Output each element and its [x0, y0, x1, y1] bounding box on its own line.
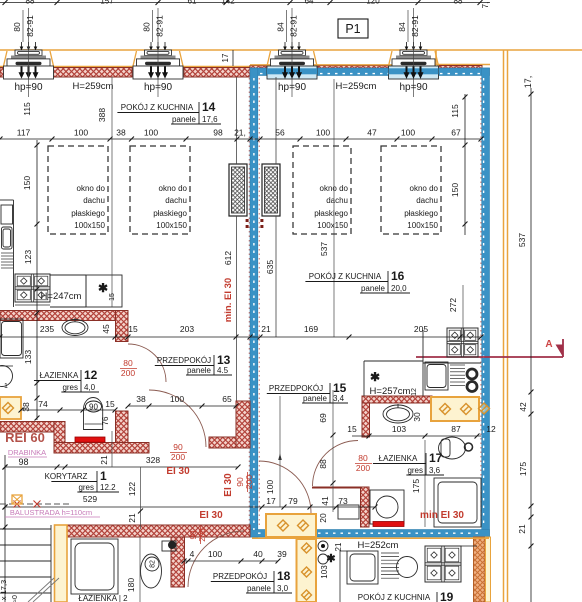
right vertical dimension line x=465 — [464, 94, 466, 235]
svg-text:80: 80 — [142, 22, 152, 32]
wall bathroom12 right lower — [116, 411, 129, 453]
wall korytarz step upper — [0, 422, 63, 433]
svg-text:4.5: 4.5 — [217, 366, 229, 375]
wall apartment19 right — [474, 537, 486, 602]
svg-text:79: 79 — [288, 496, 298, 506]
svg-text:612: 612 — [223, 251, 233, 265]
wall przedpokoj18 left vertical — [171, 537, 185, 587]
white dash texture on blue bands — [253, 78, 255, 530]
section line A-A — [416, 356, 563, 358]
door arc bathroom17 — [313, 441, 359, 487]
svg-text:88: 88 — [26, 0, 35, 6]
svg-text:3,4: 3,4 — [333, 394, 345, 403]
svg-text:169: 169 — [304, 324, 318, 334]
wall bottom band korytarz/przedpokoj18 — [67, 525, 250, 537]
svg-text:56: 56 — [275, 128, 285, 138]
svg-text:płaskiego: płaskiego — [404, 209, 438, 218]
svg-text:61: 61 — [188, 0, 197, 6]
door arc przedpokoj18 — [188, 531, 244, 587]
svg-text:82: 82 — [150, 560, 157, 568]
svg-text:x 17,3: x 17,3 — [0, 580, 8, 600]
svg-text:P1: P1 — [345, 22, 360, 36]
washing machine bathroom17 — [370, 490, 404, 524]
stove apt19 — [425, 546, 461, 582]
radiator bathroom17 — [373, 522, 404, 527]
svg-text:panele: panele — [303, 394, 328, 403]
svg-text:dachu: dachu — [165, 196, 187, 205]
svg-text:82-91: 82-91 — [25, 15, 35, 37]
dim line y=507 korytarz 529 — [5, 506, 375, 508]
svg-text:okno do: okno do — [159, 184, 188, 193]
dim line x=140 korytarz 122/21 — [140, 467, 142, 529]
svg-text:21: 21 — [127, 513, 137, 523]
svg-text:100: 100 — [265, 480, 275, 494]
svg-text:gres: gres — [407, 466, 423, 475]
blue highlight band - top — [250, 68, 490, 76]
svg-text:17: 17 — [429, 451, 443, 465]
svg-text:205: 205 — [414, 324, 428, 334]
dim line przedpokoj15 vertical x=280 — [279, 396, 281, 507]
small rect przedpokoj15 — [338, 505, 359, 519]
sink apt19 — [347, 551, 378, 584]
wall bathroom12 top — [0, 311, 128, 321]
svg-text:PRZEDPOKÓJ: PRZEDPOKÓJ — [269, 384, 323, 393]
svg-text:133: 133 — [23, 350, 33, 364]
pot circle apt19 — [397, 557, 418, 578]
toilet apartment below — [162, 541, 176, 551]
svg-text:65: 65 — [222, 394, 232, 404]
roof window symbol at x=158 — [133, 51, 137, 66]
svg-text:537: 537 — [319, 242, 329, 256]
svg-text:84: 84 — [276, 22, 286, 32]
svg-text:47: 47 — [367, 128, 377, 138]
svg-text:ŁAZIENKA | 2: ŁAZIENKA | 2 — [78, 594, 128, 602]
svg-text:235: 235 — [40, 324, 54, 334]
svg-text:123: 123 — [23, 250, 33, 264]
top exterior wall hatched segments — [0, 68, 5, 78]
roof window symbol at x=292 — [267, 51, 271, 66]
kitchen appliance apt14 — [1, 205, 13, 224]
svg-text:21: 21 — [517, 524, 527, 534]
svg-text:103: 103 — [320, 565, 329, 579]
svg-text:min EI 30: min EI 30 — [420, 510, 464, 521]
svg-text:panele: panele — [361, 284, 386, 293]
mid horizontal dimension line y=337 — [0, 336, 481, 338]
svg-text:7,: 7, — [481, 2, 490, 9]
wall korytarz bottom band — [54, 443, 149, 454]
svg-text:15: 15 — [347, 424, 357, 434]
svg-text:180: 180 — [126, 578, 136, 592]
svg-text:1: 1 — [100, 469, 107, 483]
svg-text:39: 39 — [277, 549, 287, 559]
svg-text:82-91: 82-91 — [289, 15, 299, 37]
svg-text:76: 76 — [101, 416, 110, 425]
svg-text:PRZEDPOKÓJ: PRZEDPOKÓJ — [157, 356, 211, 365]
svg-text:100: 100 — [74, 128, 88, 138]
top dimension line (clipped at image edge) — [0, 2, 490, 4]
extension line x=334 with 537 label — [333, 79, 335, 337]
wall pilaster przedpokoj13 — [209, 437, 250, 448]
svg-text:200: 200 — [171, 452, 185, 462]
door pivot dot przedpokoj18 — [168, 541, 176, 549]
roof window dashed outline 3 — [293, 146, 351, 234]
svg-text:hp=90: hp=90 — [144, 82, 173, 93]
svg-text:ŁAZIENKA: ŁAZIENKA — [379, 454, 418, 463]
dim 175 bathroom17 — [424, 440, 426, 527]
blue highlight band - bottom — [250, 530, 490, 538]
svg-text:H=259cm: H=259cm — [73, 81, 114, 92]
svg-text:min. EI 30: min. EI 30 — [223, 278, 234, 322]
svg-text:dachu: dachu — [326, 196, 348, 205]
svg-text:100x150: 100x150 — [317, 221, 348, 230]
wall edge dotted line above blue top band — [260, 66, 480, 68]
counter line apt19 — [339, 551, 341, 602]
washbasin circle bathroom12 — [0, 366, 13, 387]
svg-text:100: 100 — [316, 128, 330, 138]
svg-text:panele: panele — [247, 584, 272, 593]
svg-text:74: 74 — [38, 399, 48, 409]
svg-text:120: 120 — [366, 0, 380, 6]
svg-text:100x150: 100x150 — [74, 221, 105, 230]
wall bathroom17 left upper — [362, 403, 370, 437]
roof window dashed outline 1 — [48, 146, 108, 234]
svg-text:537: 537 — [517, 233, 527, 247]
electrical box bathroom12 — [0, 397, 21, 419]
bathtub bathroom12 — [0, 319, 23, 358]
svg-text:100: 100 — [170, 394, 184, 404]
svg-text:15: 15 — [333, 381, 347, 395]
svg-text:20: 20 — [318, 513, 328, 523]
svg-text:80: 80 — [358, 453, 368, 463]
svg-text:117: 117 — [17, 128, 31, 138]
svg-text:80: 80 — [123, 358, 133, 368]
roof window symbol at x=28.5 — [4, 51, 8, 66]
svg-text:hp=90: hp=90 — [278, 82, 307, 93]
svg-text:88: 88 — [318, 459, 328, 469]
svg-text:16: 16 — [391, 269, 405, 283]
svg-text:20,0: 20,0 — [391, 284, 407, 293]
svg-text:gres: gres — [78, 483, 94, 492]
bathroom12 dimension line y=410 — [21, 409, 115, 411]
svg-text:82-91: 82-91 — [410, 15, 420, 37]
svg-text:17,6: 17,6 — [202, 115, 218, 124]
svg-text:3,0: 3,0 — [277, 584, 289, 593]
svg-text:okno do: okno do — [77, 184, 106, 193]
svg-text:87: 87 — [451, 424, 461, 434]
washbasin bathroom17 — [383, 405, 413, 423]
svg-text:12: 12 — [84, 368, 98, 382]
left edge dimension line — [4, 455, 6, 602]
kitchen counter line apt14 — [13, 200, 15, 307]
door arc korytarz2 — [112, 406, 157, 431]
svg-text:90: 90 — [189, 530, 198, 539]
svg-text:DRABINKA: DRABINKA — [8, 448, 46, 457]
svg-text:dachu: dachu — [83, 196, 105, 205]
svg-text:200: 200 — [244, 475, 254, 489]
svg-text:88: 88 — [454, 0, 463, 6]
svg-text:14: 14 — [202, 100, 216, 114]
main horizontal dimension line y=139 — [0, 138, 481, 140]
svg-text:13: 13 — [217, 353, 231, 367]
svg-text:200: 200 — [121, 368, 135, 378]
shaft partition lines — [236, 77, 238, 164]
svg-text:H=247cm: H=247cm — [41, 291, 82, 302]
svg-text:POKÓJ Z KUCHNIA: POKÓJ Z KUCHNIA — [309, 272, 382, 281]
dim 272 kitchen16 — [462, 285, 464, 337]
svg-text:4,0: 4,0 — [84, 383, 96, 392]
dim 388 vertical label — [111, 77, 113, 307]
svg-text:69: 69 — [318, 413, 328, 423]
svg-text:POKÓJ Z KUCHNIA: POKÓJ Z KUCHNIA — [121, 103, 194, 112]
shower bathroom17 — [434, 478, 481, 527]
svg-text:200: 200 — [356, 463, 370, 473]
svg-text:84: 84 — [397, 22, 407, 32]
svg-text:64: 64 — [305, 0, 314, 6]
svg-text:122: 122 — [127, 482, 137, 496]
svg-text:17,: 17, — [523, 76, 533, 89]
svg-text:98: 98 — [18, 457, 28, 467]
svg-text:328: 328 — [146, 455, 160, 465]
knob rings apt16 — [467, 369, 477, 379]
svg-text:panele: panele — [187, 366, 212, 375]
svg-text:98: 98 — [213, 128, 223, 138]
svg-text:płaskiego: płaskiego — [314, 209, 348, 218]
svg-text:388: 388 — [97, 108, 107, 122]
svg-text:175: 175 — [518, 462, 528, 476]
svg-text:ŁAZIENKA: ŁAZIENKA — [40, 371, 79, 380]
fridge apt14 — [86, 275, 122, 307]
door arc korytarz — [149, 390, 206, 447]
svg-text:hp=90: hp=90 — [14, 82, 43, 93]
svg-text:17: 17 — [221, 53, 230, 62]
balustrade symbol line — [0, 503, 71, 505]
korytarz dimension line y=467 — [5, 466, 238, 468]
svg-text:1: 1 — [4, 383, 8, 390]
dim 180 / 82 bottom — [139, 537, 141, 602]
drainer apt19 — [381, 552, 399, 554]
radiator korytarz — [75, 437, 105, 442]
door threshold bathroom17 — [312, 487, 362, 489]
svg-text:okno do: okno do — [410, 184, 439, 193]
svg-text:30: 30 — [412, 412, 422, 422]
stairs bottom left — [50, 525, 52, 602]
electrical box strip przedpokoj18 — [297, 539, 317, 602]
yellow riser strip at stairs — [55, 525, 68, 602]
svg-text:90: 90 — [173, 442, 183, 452]
svg-text:21: 21 — [334, 542, 343, 551]
toilet bathroom12 — [84, 398, 103, 430]
svg-text:dachu: dachu — [416, 196, 438, 205]
roof edge vertical right — [503, 50, 505, 602]
svg-text:15: 15 — [128, 324, 138, 334]
svg-text:12: 12 — [486, 424, 496, 434]
svg-text:KORYTARZ: KORYTARZ — [45, 472, 88, 481]
blue highlight band - right — [482, 68, 490, 537]
kitchen sink apt14 — [2, 227, 13, 249]
top exterior wall upper edge — [0, 66, 250, 68]
svg-text:gres: gres — [62, 383, 78, 392]
svg-text:REI 60: REI 60 — [5, 430, 45, 445]
bathtub apartment below — [71, 539, 118, 594]
svg-text:19: 19 — [440, 590, 454, 602]
svg-text:H=252cm: H=252cm — [358, 540, 399, 551]
dim extension x=112 korytarz — [111, 431, 113, 467]
svg-text:82-91: 82-91 — [155, 15, 165, 37]
bathroom17 dimension line y=436 — [352, 435, 481, 437]
ventilation shaft right — [262, 164, 280, 216]
stove apt16 — [447, 328, 478, 357]
svg-text:PRZEDPOKÓJ: PRZEDPOKÓJ — [213, 572, 267, 581]
blue highlight band - left — [250, 68, 258, 537]
svg-text:200: 200 — [198, 528, 207, 542]
roof edge line top — [0, 49, 436, 51]
left vertical dimension line x=37 — [36, 140, 38, 420]
svg-text:H=257cm: H=257cm — [370, 386, 411, 397]
svg-text:100x150: 100x150 — [407, 221, 438, 230]
door arc bathroom12 — [128, 344, 166, 382]
svg-text:21: 21 — [99, 455, 109, 465]
orange line under blue bottom band — [252, 537, 489, 539]
svg-text:✱: ✱ — [98, 281, 108, 295]
svg-text:150: 150 — [22, 176, 32, 190]
svg-text:115: 115 — [22, 102, 32, 116]
sink apt16 — [425, 362, 448, 390]
ventilation shaft left — [229, 164, 247, 216]
svg-text:3,6: 3,6 — [429, 466, 441, 475]
svg-text:45: 45 — [101, 324, 111, 334]
svg-text:EI 30: EI 30 — [166, 466, 190, 477]
svg-text:H=259cm: H=259cm — [336, 81, 377, 92]
svg-text:38: 38 — [116, 128, 126, 138]
roof window symbol at x=413.5 — [389, 51, 393, 66]
washbasin bathroom12 — [62, 320, 88, 336]
small circles apt19 wall — [318, 541, 328, 551]
svg-text:90: 90 — [89, 403, 98, 412]
svg-text:100: 100 — [208, 549, 222, 559]
svg-text:hp=90: hp=90 — [399, 82, 428, 93]
svg-text:80: 80 — [12, 22, 22, 32]
electrical box przedpokoj15 — [431, 397, 479, 421]
svg-text:67: 67 — [451, 128, 461, 138]
dim line x=333 przedpokoj15 — [332, 390, 334, 512]
svg-text:18: 18 — [277, 569, 291, 583]
wall bathroom17 left lower — [361, 487, 370, 527]
svg-text:103: 103 — [392, 424, 406, 434]
svg-text:635: 635 — [265, 260, 275, 274]
svg-text:100x150: 100x150 — [156, 221, 187, 230]
dim 115 left — [30, 97, 37, 143]
wall edge dashed lines beside blue band — [248, 78, 250, 527]
svg-text:EI 30: EI 30 — [223, 473, 234, 497]
svg-text:15: 15 — [109, 293, 116, 301]
svg-text:157: 157 — [100, 0, 114, 6]
svg-text:40: 40 — [253, 549, 263, 559]
dish drainer apt14 — [1, 252, 13, 254]
wall bathroom12 right upper — [116, 311, 129, 342]
svg-text:15: 15 — [105, 399, 115, 409]
svg-text:≈0: ≈0 — [12, 595, 19, 602]
drainer apt16 — [450, 364, 465, 366]
svg-text:41: 41 — [320, 496, 330, 506]
svg-text:POKÓJ Z KUCHNIA: POKÓJ Z KUCHNIA — [358, 593, 431, 602]
roof window dashed outline 4 — [381, 146, 441, 234]
svg-text:płaskiego: płaskiego — [153, 209, 187, 218]
przedpokoj13 dimension line y=406 — [128, 405, 236, 407]
roof window dashed outline 2 — [130, 146, 190, 234]
kitchen alcove lines apt16 — [363, 361, 365, 396]
svg-text:529: 529 — [83, 494, 97, 504]
dim line przedpokoj18 y=561 — [184, 560, 278, 562]
svg-text:12: 12 — [411, 388, 418, 396]
svg-text:panele: panele — [172, 115, 197, 124]
door arc przedpokoj15 entry — [259, 461, 311, 513]
svg-text:100: 100 — [144, 128, 158, 138]
counter apt14 — [50, 274, 86, 276]
svg-text:płaskiego: płaskiego — [71, 209, 105, 218]
dim 17 at wall step — [232, 50, 234, 66]
wall przedpokoj15 top — [362, 396, 432, 403]
toilet bathroom17 — [439, 437, 466, 459]
svg-text:100: 100 — [401, 128, 415, 138]
svg-text:17: 17 — [266, 496, 276, 506]
electrical box przedpokoj18 top — [266, 514, 316, 537]
stove apt14 — [15, 274, 50, 302]
svg-text:272: 272 — [448, 298, 458, 312]
svg-text:38: 38 — [136, 394, 146, 404]
wall korytarz step vertical — [54, 422, 65, 454]
svg-text:EI 30: EI 30 — [199, 510, 223, 521]
svg-text:12.2: 12.2 — [100, 483, 116, 492]
outer right dimension line x=531 — [530, 88, 532, 602]
svg-text:✱: ✱ — [326, 553, 335, 565]
svg-text:175: 175 — [411, 479, 421, 493]
svg-text:✱: ✱ — [370, 370, 380, 384]
P1 reference box — [338, 19, 368, 38]
svg-text:150: 150 — [450, 183, 460, 197]
blue band over window sills — [267, 68, 317, 74]
svg-text:4: 4 — [190, 549, 195, 559]
svg-text:115: 115 — [450, 104, 460, 118]
svg-text:A: A — [545, 339, 552, 350]
svg-text:BALUSTRADA h=110cm: BALUSTRADA h=110cm — [10, 508, 92, 517]
svg-text:21,: 21, — [234, 128, 246, 138]
svg-text:73: 73 — [338, 496, 348, 506]
svg-text:42: 42 — [518, 402, 528, 412]
svg-text:203: 203 — [180, 324, 194, 334]
svg-text:21: 21 — [261, 324, 271, 334]
